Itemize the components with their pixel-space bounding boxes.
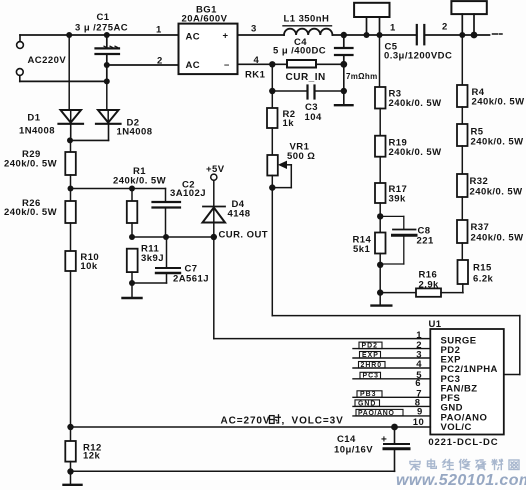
junction bottom rail [67, 468, 73, 474]
label L1 350nH underlined [283, 14, 332, 26]
label C2 [170, 180, 206, 200]
label R32 [470, 176, 523, 198]
svg-text:U1: U1 [429, 319, 442, 330]
svg-text:4148: 4148 [228, 209, 251, 220]
label VR1 [287, 142, 315, 163]
net label 2HR0 [359, 362, 386, 369]
svg-text:5k1: 5k1 [353, 244, 370, 255]
U1 pin names column [441, 335, 498, 433]
svg-text:221: 221 [417, 236, 434, 247]
wire: AC top rail from terminal to BG1 pin1 [20, 34, 179, 36]
label R29 [4, 149, 57, 170]
svg-text:10μ/16V: 10μ/16V [334, 445, 373, 456]
svg-text:R37: R37 [471, 222, 490, 233]
wire: R32 to R37 [461, 197, 463, 220]
label C4 [273, 37, 326, 57]
coil terminal box left [354, 3, 389, 35]
junction on top rail at C1 [104, 32, 110, 38]
net label PAO/ANO [356, 409, 403, 416]
wire: line 2 from C1 bottom to BG1 pin2 [107, 64, 179, 66]
label R3 [389, 89, 442, 110]
junction at C1 bottom / line 2 [104, 62, 110, 68]
resistor R2 1k [267, 91, 278, 155]
resistor R26 240k/0.5W [65, 201, 76, 223]
wire: R5 to R32 [461, 146, 463, 174]
ground below C4 node [335, 91, 353, 105]
svg-text:2A561J: 2A561J [173, 274, 209, 285]
junction R1/R11 [129, 234, 135, 240]
label R15 [473, 263, 494, 285]
resistor R10 10k [65, 251, 76, 271]
capacitor C4 5u/400DC [335, 35, 353, 64]
resistor R29 240k/0.5W [65, 152, 76, 175]
wire: C5 to right coil box leads [425, 34, 490, 36]
svg-text:+: + [223, 31, 229, 42]
capacitor C1 [96, 35, 120, 81]
label R2 [283, 109, 296, 129]
svg-text:240k/0. 5W: 240k/0. 5W [113, 176, 166, 187]
junction R2 branch on line 4 [269, 61, 275, 67]
wire: CUR.OUT down to U1 pin1 row [214, 237, 430, 339]
wire: pin9 stub [353, 415, 430, 417]
svg-text:AC220V: AC220V [28, 55, 67, 66]
svg-text:104: 104 [305, 112, 322, 123]
wire: shunt to C4 node [316, 63, 344, 65]
label C1 value [75, 12, 128, 34]
wire: C4 node down to C3 node [343, 64, 345, 91]
svg-text:39k: 39k [389, 194, 406, 205]
label D4 [228, 199, 251, 220]
label R19 [389, 138, 442, 159]
svg-text:CUR. OUT: CUR. OUT [219, 230, 269, 241]
svg-text:www.520101.com: www.520101.com [396, 472, 526, 489]
label C5 [384, 42, 452, 62]
wire: R26 to R10 [70, 223, 72, 251]
wire: bottom ground rail R12 to C14 [71, 470, 395, 472]
svg-text:C14: C14 [337, 434, 356, 445]
svg-text:1N4008: 1N4008 [19, 126, 55, 137]
svg-text:C1: C1 [97, 12, 110, 23]
resistor R3 240k/0.5W [375, 87, 386, 109]
resistor R1 240k/0.5W [127, 189, 138, 238]
capacitor C8 221 [380, 216, 416, 264]
svg-text:240k/0. 5W: 240k/0. 5W [4, 207, 57, 218]
resistor R12 12k [65, 441, 76, 462]
wire: dashed continuation at right edge [493, 33, 503, 35]
svg-text:3: 3 [251, 24, 257, 35]
junction R1 top [129, 186, 135, 192]
label C7 [173, 264, 209, 285]
svg-text:240k/0. 5W: 240k/0. 5W [471, 137, 524, 148]
wire: R3 chain top lead [379, 35, 381, 87]
wire: pin4 stub [353, 367, 430, 369]
svg-text:2: 2 [442, 22, 448, 33]
svg-text:240k/0. 5W: 240k/0. 5W [4, 159, 57, 170]
svg-text:R15: R15 [473, 263, 492, 274]
svg-text:CUR_IN: CUR_IN [286, 72, 326, 83]
svg-text:AC=270V: AC=270V [221, 416, 271, 427]
wire: pin5 stub [353, 378, 430, 380]
svg-text:R32: R32 [470, 176, 489, 187]
junction C14 top [391, 424, 398, 431]
label AC=270V VOLC=3V [221, 415, 344, 427]
label R16 [419, 270, 440, 291]
capacitor C3 104 [272, 86, 344, 99]
svg-text:0.3μ/1200VDC: 0.3μ/1200VDC [384, 51, 452, 62]
net label PB3 [357, 391, 382, 398]
wire: D2 cathode to D1 cathode junction [69, 139, 108, 141]
svg-text:PD2: PD2 [362, 343, 378, 350]
svg-text:D1: D1 [27, 113, 40, 124]
resistor R16 2.9k (horizontal) [380, 288, 463, 296]
svg-text:1N4008: 1N4008 [117, 127, 153, 138]
label R11 [141, 244, 164, 265]
junction C3 left / R2 top [269, 88, 275, 94]
label C3 [305, 102, 322, 123]
resistor R4 240k/0.5W [457, 85, 468, 107]
label R12 [83, 443, 102, 462]
wire: R19 to R17 [379, 157, 381, 183]
IC U1 box [430, 329, 504, 435]
label BG1 [182, 5, 228, 25]
shunt resistor RK1 7mOhm [287, 60, 316, 68]
svg-text:20A/600V: 20A/600V [182, 14, 228, 25]
net label PD2 [359, 342, 382, 349]
junction right coil box lead A / R4 chain [459, 32, 465, 38]
inductor L1 350nH [284, 29, 332, 35]
junction left rail / R1 row [68, 186, 74, 192]
junction left coil box lead B / R3 chain [377, 32, 383, 38]
svg-text:5 μ /400DC: 5 μ /400DC [273, 46, 326, 57]
wire: D1 branch down from top rail [68, 35, 70, 110]
net label EXP [360, 352, 381, 359]
svg-text:0221-DCL-DC: 0221-DCL-DC [428, 437, 498, 448]
svg-text:3A102J: 3A102J [170, 188, 206, 199]
node AC220V input terminal top [17, 35, 24, 48]
junction C2/C7 [163, 234, 169, 240]
wire: pin8 stub [353, 405, 430, 407]
resistor R19 240k/0.5W [375, 136, 386, 157]
node AC220V input terminal bottom [16, 69, 23, 82]
resistor R5 240k/0.5W [457, 124, 468, 146]
label R4 [472, 87, 525, 108]
ground below R12 [64, 484, 82, 486]
resistor R14 5k1 [375, 233, 386, 254]
junction R16 row [377, 289, 383, 295]
watermark line 1: jia dian wei xiu zi liao wang [410, 459, 519, 470]
wire: pin2 stub [353, 348, 430, 350]
svg-text:240k/0. 5W: 240k/0. 5W [389, 147, 442, 158]
label R14 [353, 235, 372, 256]
svg-text:7mΩhm: 7mΩhm [346, 72, 377, 81]
junction C3 right [341, 88, 347, 94]
svg-text:240k/0. 5W: 240k/0. 5W [470, 187, 523, 198]
wire: AC bottom rail from terminal to D2 branch [20, 80, 107, 82]
svg-text:6.2k: 6.2k [473, 274, 494, 285]
svg-text:240k/0. 5W: 240k/0. 5W [472, 97, 525, 108]
label D2 [117, 118, 153, 138]
capacitor C7 2A561J [132, 237, 180, 283]
net label PC3 [360, 372, 381, 379]
wire: CUR.OUT row R1 bottom to D4 anode [132, 236, 214, 238]
label R26 [4, 198, 57, 218]
junction on bottom rail at D2 branch [104, 78, 110, 84]
junction left rail VOL/C row [67, 424, 73, 430]
junction C4 top [341, 32, 347, 38]
resistor R37 240k/0.5W [457, 220, 468, 243]
svg-text:GND: GND [358, 400, 376, 407]
node CUR.OUT junction [211, 234, 217, 240]
svg-text:AC: AC [186, 60, 201, 71]
label R1 [113, 166, 166, 187]
junction left coil box lead A [364, 32, 370, 38]
svg-text:10k: 10k [80, 261, 97, 272]
capacitor C2 3A102J [153, 189, 181, 238]
label C14 [334, 434, 373, 456]
svg-text:EXP: EXP [362, 352, 379, 359]
net label GND [355, 400, 380, 407]
resistor R32 240k/0.5W [457, 174, 468, 197]
junction on top rail at D1 branch [66, 32, 72, 38]
resistor R17 39k [375, 183, 386, 203]
label BG1 pins AC + [186, 31, 229, 43]
svg-text:500 Ω: 500 Ω [287, 151, 315, 162]
diode D4 4148 [203, 207, 226, 238]
svg-text:3k9J: 3k9J [141, 253, 164, 264]
wire: R4 to R5 [461, 107, 463, 124]
junction diode cathodes [67, 137, 73, 143]
bridge rectifier BG1 20A/600V [179, 24, 238, 75]
svg-text:12k: 12k [83, 451, 100, 462]
label R37 [471, 222, 524, 244]
svg-text:240k/0. 5W: 240k/0. 5W [389, 98, 442, 109]
junction right coil box lead B [471, 32, 478, 39]
resistor R15 6.2k [458, 260, 469, 284]
wire: R29 to junction [70, 175, 72, 201]
wire: pin10 VOL/C row from left rail [71, 426, 431, 428]
svg-text:PAO/ANO: PAO/ANO [358, 410, 395, 417]
capacitor C5 0.3u/1200VDC (series) [417, 25, 425, 44]
resistor R11 3k9J [127, 249, 138, 283]
wire: left rail D1 junction to R29 [70, 140, 72, 152]
svg-text:2: 2 [157, 56, 163, 67]
junction R14/C8 bottom [377, 262, 383, 268]
svg-text:10: 10 [413, 417, 424, 428]
wire: R37 to R15 [461, 243, 463, 260]
wire: R2 branch down [271, 64, 273, 91]
wire: R15 bottom to R16 [462, 284, 464, 293]
svg-text:L1 350nH: L1 350nH [284, 14, 330, 25]
svg-text:,: , [282, 416, 285, 427]
label D1 [19, 113, 55, 137]
svg-text:–: – [224, 60, 230, 71]
svg-text:1: 1 [156, 25, 162, 36]
label R10 [80, 252, 99, 272]
svg-text:VOL/C: VOL/C [441, 422, 472, 433]
svg-text:+5V: +5V [206, 164, 225, 175]
wire: pin3 stub [353, 357, 430, 359]
capacitor C14 10u/16V polarized [381, 427, 409, 471]
wire: BG1 pin4 line to shunt [238, 63, 288, 65]
label BG1 pins AC - [186, 60, 230, 72]
U1 pin numbers column [413, 330, 424, 428]
coil terminal box right [451, 1, 486, 35]
diode D1 1N4008 [59, 110, 84, 140]
ground below R14 chain [372, 293, 392, 306]
wire: left rail long run R10 to VOL/C row [70, 271, 72, 441]
svg-text:RK1: RK1 [245, 70, 266, 81]
ground below R11 [123, 283, 142, 298]
wire: VR1 node down and across to U1 right side [272, 188, 520, 375]
junction shunt / C4 bottom [340, 61, 347, 68]
wire: R3 to R19 [379, 109, 381, 136]
label R5 [471, 127, 524, 148]
wire: R14 to bottom junction [379, 254, 381, 293]
svg-text:1: 1 [390, 23, 396, 34]
wire: L1 to top node / C5 / coil box leads [332, 34, 416, 36]
diode D2 1N4008 [96, 81, 121, 140]
node +5V supply circle [211, 174, 217, 205]
wire: R4 chain top lead [461, 35, 463, 85]
svg-text:PB3: PB3 [360, 391, 376, 398]
wire: pin7 stub [353, 396, 430, 398]
label R17 [389, 184, 408, 205]
junction R11 bottom / C7 [129, 280, 135, 286]
wire: row from left rail to C2 top [71, 188, 166, 190]
wire: BG1 pin3 to L1 [238, 34, 285, 36]
svg-text:240k/0. 5W: 240k/0. 5W [471, 233, 524, 244]
svg-text:AC: AC [186, 32, 201, 43]
svg-text:PC3: PC3 [363, 373, 379, 380]
svg-text:1k: 1k [283, 118, 295, 129]
svg-text:2HR0: 2HR0 [361, 362, 383, 369]
potentiometer VR1 500ohm [267, 155, 291, 188]
svg-text:2.9k: 2.9k [419, 280, 440, 291]
junction VR1 wiper/bottom [269, 184, 275, 190]
junction R17/R14/C8 [377, 213, 383, 219]
wire: R12 to bottom rail [70, 462, 72, 484]
svg-text:3 μ /275AC: 3 μ /275AC [75, 23, 128, 34]
label C8 [417, 226, 434, 247]
wire: R17 to R14 junction [379, 203, 381, 233]
svg-text:VOLC=3V: VOLC=3V [292, 416, 344, 427]
